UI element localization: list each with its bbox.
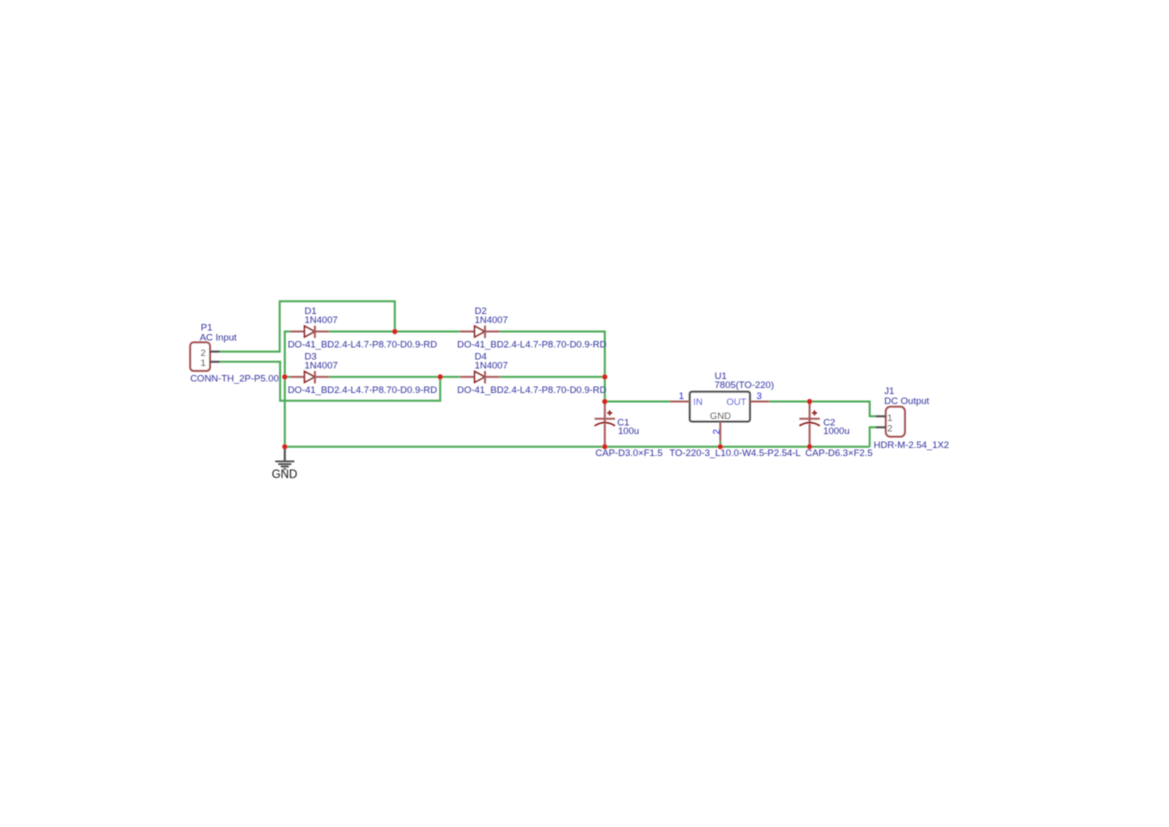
svg-text:2: 2	[711, 429, 722, 434]
node D3 anode junction	[282, 374, 287, 379]
node U1 GND junction	[718, 444, 723, 449]
regulator U1	[670, 392, 769, 441]
svg-text:CONN-TH_2P-P5.00: CONN-TH_2P-P5.00	[190, 373, 279, 384]
connector P1	[190, 342, 210, 371]
wire pin1 of P1 down and across to D3-D4 node	[220, 362, 441, 401]
wire ground bus up to J1 pin2	[870, 427, 876, 446]
pin 1 stub of P1	[210, 361, 220, 363]
svg-text:1: 1	[201, 358, 206, 369]
capacitor C2	[799, 402, 819, 447]
wire U1 GND pin to bus	[719, 441, 721, 447]
svg-text:GND: GND	[272, 469, 298, 481]
svg-text:DO-41_BD2.4-L4.7-P8.70-D0.9-RD: DO-41_BD2.4-L4.7-P8.70-D0.9-RD	[288, 385, 438, 396]
svg-text:CAP-D6.3×F2.5: CAP-D6.3×F2.5	[805, 448, 872, 459]
node C2 bottom junction	[807, 444, 812, 449]
svg-text:1: 1	[679, 391, 684, 402]
node C1 bottom junction	[602, 444, 607, 449]
capacitor C1	[595, 402, 615, 447]
wire D1 cathode to D2 anode	[329, 331, 460, 333]
svg-text:1N4007: 1N4007	[475, 360, 508, 371]
svg-text:GND: GND	[710, 411, 731, 422]
wire D4 cathode to vertical	[500, 376, 605, 378]
svg-text:1N4007: 1N4007	[475, 315, 508, 326]
wire ground bus	[285, 446, 870, 448]
wire U1 OUT to C2 top to J1 pin1	[769, 402, 876, 417]
diode D4	[460, 371, 500, 383]
wire D3 anode stub	[285, 376, 291, 378]
wire pin2 of P1 to top rail to D1-D2 node	[220, 301, 395, 351]
svg-text:DO-41_BD2.4-L4.7-P8.70-D0.9-RD: DO-41_BD2.4-L4.7-P8.70-D0.9-RD	[288, 339, 438, 350]
svg-text:TO-220-3_L10.0-W4.5-P2.54-L: TO-220-3_L10.0-W4.5-P2.54-L	[669, 448, 800, 459]
wire D1 anode vertical down to ground bus	[285, 332, 291, 447]
svg-text:1N4007: 1N4007	[305, 315, 338, 326]
node D4 cathode junction	[602, 374, 607, 379]
node C2 top junction	[807, 399, 812, 404]
svg-text:1: 1	[887, 413, 892, 424]
pin 2 stub of P1	[210, 351, 220, 353]
svg-text:1N4007: 1N4007	[305, 360, 338, 371]
diode D2	[460, 326, 500, 338]
svg-text:2: 2	[887, 424, 892, 435]
svg-text:AC Input: AC Input	[200, 332, 237, 343]
svg-text:IN: IN	[693, 397, 703, 408]
svg-text:DC Output: DC Output	[884, 396, 929, 407]
svg-text:DO-41_BD2.4-L4.7-P8.70-D0.9-RD: DO-41_BD2.4-L4.7-P8.70-D0.9-RD	[457, 385, 607, 396]
svg-text:HDR-M-2.54_1X2: HDR-M-2.54_1X2	[874, 440, 950, 451]
svg-text:7805(TO-220): 7805(TO-220)	[715, 380, 775, 391]
pin 1 stub of J1	[876, 415, 886, 417]
svg-text:3: 3	[757, 391, 762, 402]
svg-text:1000u: 1000u	[823, 426, 849, 437]
node C1 top junction	[602, 399, 607, 404]
svg-text:100u: 100u	[618, 426, 639, 437]
node ground bus left junction	[282, 444, 287, 449]
wire D2 cathode down to C1 top node	[500, 332, 605, 402]
pin 2 stub of J1	[876, 426, 886, 428]
diode D1	[290, 326, 329, 338]
svg-text:DO-41_BD2.4-L4.7-P8.70-D0.9-RD: DO-41_BD2.4-L4.7-P8.70-D0.9-RD	[457, 339, 607, 350]
diode D3	[290, 371, 329, 383]
wire C1 top node to U1 IN	[605, 401, 670, 403]
svg-text:CAP-D3.0×F1.5: CAP-D3.0×F1.5	[595, 448, 662, 459]
node D1-D2 junction	[392, 329, 397, 334]
ground	[272, 447, 298, 481]
svg-text:OUT: OUT	[726, 397, 746, 408]
node D3-D4 junction	[438, 374, 443, 379]
wire D3 cathode to D4 anode	[329, 376, 460, 378]
connector J1	[886, 407, 905, 437]
